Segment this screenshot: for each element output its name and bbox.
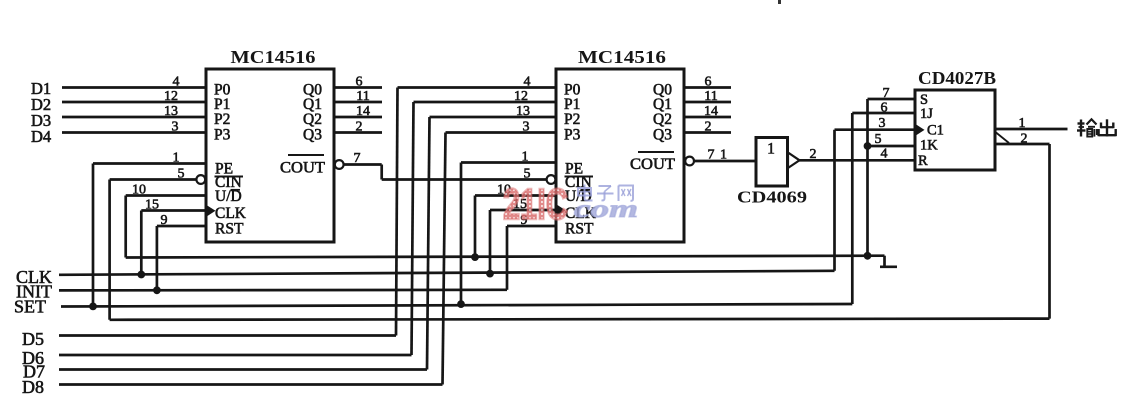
- svg-text:7: 7: [354, 151, 361, 166]
- svg-text:R: R: [918, 153, 928, 169]
- svg-text:14: 14: [356, 104, 370, 119]
- svg-text:4: 4: [524, 75, 531, 90]
- svg-text:7: 7: [883, 86, 890, 101]
- svg-text:3: 3: [523, 120, 530, 135]
- svg-text:1: 1: [173, 151, 180, 166]
- svg-text:15: 15: [145, 198, 159, 213]
- svg-text:C1: C1: [927, 123, 944, 139]
- svg-text:4: 4: [881, 147, 888, 162]
- svg-text:SET: SET: [14, 297, 46, 317]
- svg-text:Q2: Q2: [653, 111, 672, 128]
- svg-text:RST: RST: [215, 221, 244, 238]
- svg-text:2: 2: [705, 120, 712, 135]
- svg-text:MC14516: MC14516: [578, 47, 666, 67]
- svg-text:2: 2: [1021, 132, 1028, 147]
- svg-text:1: 1: [522, 150, 529, 165]
- svg-text:11: 11: [704, 89, 717, 104]
- svg-text:6: 6: [881, 101, 888, 116]
- svg-text:2: 2: [810, 147, 817, 162]
- svg-text:12: 12: [514, 89, 528, 104]
- svg-text:CD4069: CD4069: [737, 188, 807, 207]
- svg-text:CLK: CLK: [215, 205, 247, 222]
- svg-text:5: 5: [875, 132, 882, 147]
- svg-text:11: 11: [356, 89, 369, 104]
- svg-text:1: 1: [720, 148, 727, 163]
- svg-text:P3: P3: [214, 127, 231, 144]
- svg-text:1: 1: [1019, 116, 1026, 131]
- svg-text:1: 1: [767, 141, 775, 158]
- svg-text:Q3: Q3: [303, 127, 322, 144]
- svg-text:MC14516: MC14516: [231, 47, 316, 67]
- svg-text:P2: P2: [214, 111, 230, 128]
- svg-text:P2: P2: [564, 111, 580, 128]
- svg-text:13: 13: [516, 104, 530, 119]
- svg-text:D8: D8: [22, 377, 44, 397]
- svg-text:COUT: COUT: [280, 160, 326, 177]
- svg-text:6: 6: [705, 75, 712, 90]
- svg-text:COUT: COUT: [630, 156, 676, 173]
- svg-text:14: 14: [704, 104, 718, 119]
- svg-text:6: 6: [356, 75, 363, 90]
- svg-text:Q2: Q2: [303, 111, 322, 128]
- svg-text:5: 5: [178, 167, 185, 182]
- svg-text:2: 2: [356, 120, 363, 135]
- svg-text:CD4027B: CD4027B: [918, 68, 996, 88]
- svg-text:10: 10: [132, 183, 146, 198]
- svg-text:3: 3: [879, 116, 886, 131]
- svg-text:9: 9: [161, 213, 168, 228]
- svg-text:P3: P3: [564, 127, 581, 144]
- svg-text:21IC: 21IC: [503, 180, 568, 229]
- svg-text:1J: 1J: [920, 106, 933, 122]
- svg-text:com: com: [574, 196, 638, 223]
- svg-text:1K: 1K: [920, 138, 938, 154]
- svg-text:D4: D4: [31, 127, 51, 146]
- svg-text:D5: D5: [22, 329, 44, 349]
- svg-text:RST: RST: [565, 221, 594, 238]
- svg-text:13: 13: [164, 104, 178, 119]
- svg-text:Q3: Q3: [653, 127, 672, 144]
- svg-text:12: 12: [164, 89, 178, 104]
- svg-text:4: 4: [173, 75, 180, 90]
- svg-text:7: 7: [708, 148, 715, 163]
- svg-text:3: 3: [172, 120, 179, 135]
